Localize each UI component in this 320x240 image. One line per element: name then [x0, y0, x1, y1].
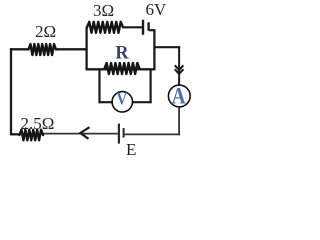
wire voltmeter horizontal right — [132, 101, 151, 103]
resistor 2Ω — [29, 44, 57, 55]
current arrow left — [80, 127, 89, 139]
svg-text:R: R — [115, 42, 128, 63]
svg-text:A: A — [172, 84, 186, 109]
svg-text:E: E — [126, 140, 136, 159]
svg-text:2Ω: 2Ω — [35, 22, 56, 41]
wire bottom middle segment — [43, 133, 119, 135]
battery E long plate — [118, 124, 120, 144]
battery 6V long plate — [142, 20, 144, 35]
wire bottom right segment — [124, 133, 180, 135]
svg-text:V: V — [116, 89, 127, 109]
battery E short plate — [123, 128, 125, 138]
voltmeter V circle — [112, 92, 132, 112]
node box left edge — [85, 27, 87, 71]
wire ammeter vertical with current arrow — [178, 46, 180, 85]
wire left vertical — [10, 48, 12, 135]
wire ammeter branch horizontal — [153, 46, 180, 48]
resistor 3Ω — [87, 22, 123, 33]
wire battery exit — [149, 29, 155, 31]
current arrow down — [175, 65, 184, 70]
wire voltmeter horizontal left — [99, 101, 113, 103]
wire voltmeter drop right — [150, 69, 152, 103]
wire 3Ω to battery — [123, 26, 143, 28]
svg-text:2.5Ω: 2.5Ω — [21, 114, 55, 133]
resistor R — [105, 63, 140, 74]
wire bottom left segment — [10, 133, 20, 135]
ammeter A circle — [168, 85, 190, 107]
wire R branch — [86, 68, 156, 70]
battery 6V short plate — [147, 22, 149, 30]
svg-text:6V: 6V — [146, 0, 168, 19]
wire top-left horizontal — [10, 48, 29, 50]
node box right edge — [153, 29, 155, 70]
svg-text:3Ω: 3Ω — [93, 1, 114, 20]
resistor 2.5Ω — [20, 130, 44, 141]
wire ammeter to bottom — [178, 107, 180, 136]
wire 2Ω to box — [56, 48, 88, 50]
wire voltmeter drop left — [98, 69, 100, 103]
